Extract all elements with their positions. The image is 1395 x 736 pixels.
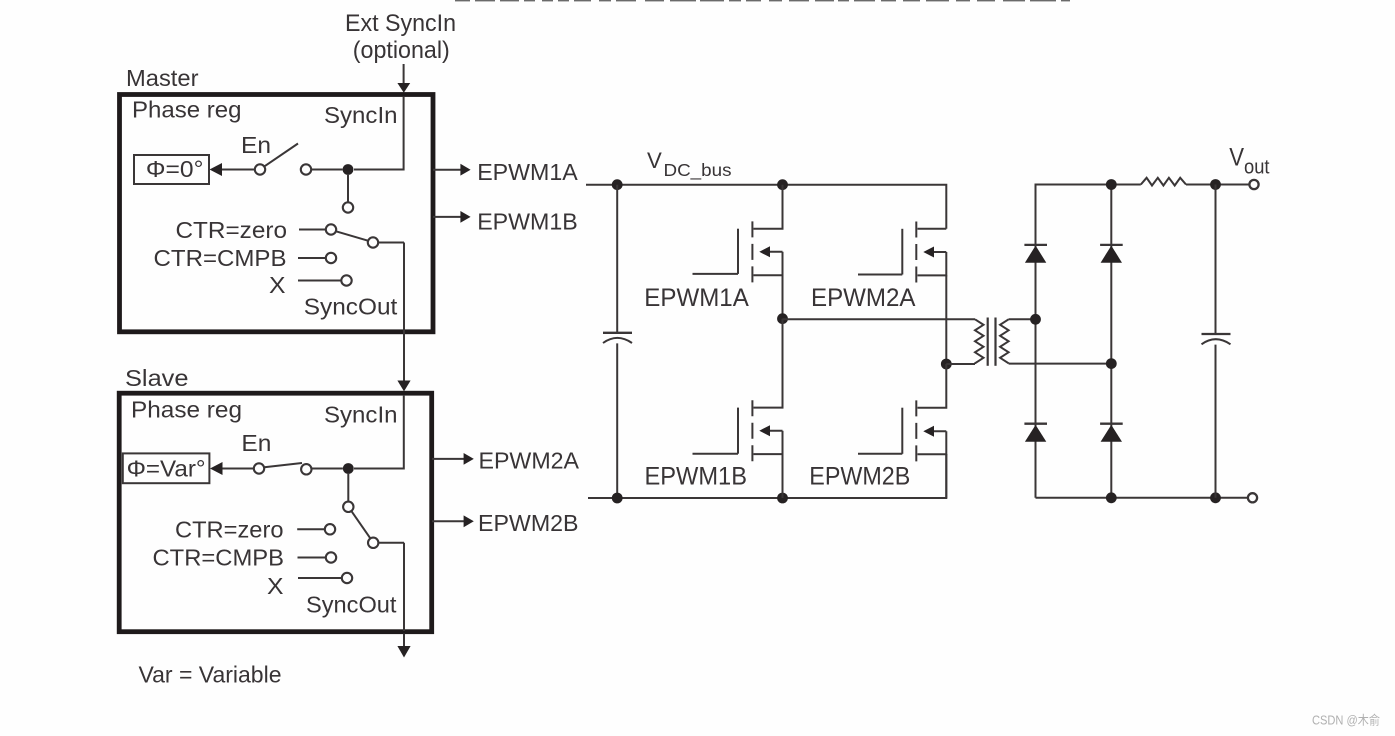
wire junction to switch circle — [312, 169, 343, 171]
svg-text:CTR=CMPB: CTR=CMPB — [153, 545, 285, 571]
node junction slave SyncIn — [343, 463, 354, 474]
Q4 source wire — [945, 454, 947, 498]
wire EPWM1A out of master — [433, 169, 462, 171]
svg-text:Slave: Slave — [125, 365, 189, 391]
wire SyncIn inside master — [354, 97, 404, 170]
svg-text:V: V — [647, 148, 662, 173]
wire rectifier bottom rail — [1036, 497, 1249, 499]
transistor Q3 EPWM2A high-side right — [858, 222, 946, 365]
Q1 gate bar — [737, 229, 739, 274]
wire bottom rail primary — [588, 454, 946, 498]
Q2 body arrow — [754, 431, 783, 454]
wire primary bottom lead — [946, 363, 975, 365]
node top rail input cap — [612, 179, 623, 190]
node bottom rail input cap — [612, 493, 623, 504]
svg-text:(optional): (optional) — [353, 37, 450, 64]
Q3 gate lead — [858, 274, 902, 276]
circle CTR=CMPB slave — [326, 552, 336, 562]
Q2 gate lead — [693, 453, 739, 455]
node half-bridge right mid — [941, 359, 952, 370]
circle CTR=zero slave — [325, 524, 335, 534]
svg-text:CTR=CMPB: CTR=CMPB — [154, 245, 287, 271]
wire EPWM1B out of master — [433, 216, 462, 218]
wire ext syncin vertical — [403, 64, 405, 85]
phase value box master — [134, 155, 209, 184]
arrow into master SyncIn — [397, 83, 410, 93]
svg-text:SyncOut: SyncOut — [306, 592, 397, 618]
switch pole circle slave En right — [301, 464, 311, 474]
Q4 channel dashed — [915, 400, 917, 461]
circle CTR=CMPB master — [326, 253, 336, 263]
Q2 source wire — [782, 454, 784, 498]
label V_DC_bus — [647, 148, 732, 181]
diode D1 upper left — [1024, 245, 1047, 263]
svg-text:EPWM1A: EPWM1A — [644, 285, 749, 312]
circle X master — [341, 275, 351, 285]
circle SyncOut pole slave — [368, 538, 378, 548]
svg-text:CTR=zero: CTR=zero — [176, 217, 288, 243]
node top rail left leg — [777, 179, 788, 190]
Q3 gate bar — [901, 229, 903, 275]
Q4 body arrow — [918, 431, 947, 454]
slave block border — [119, 393, 432, 632]
circle SyncOut pole master — [368, 237, 378, 247]
wire secondary bottom lead — [1009, 363, 1112, 365]
Q3 drain wire — [918, 228, 947, 230]
svg-text:CTR=zero: CTR=zero — [175, 517, 284, 543]
wire SyncOut vertical to slave — [403, 243, 405, 383]
arrow into slave SyncIn — [397, 381, 410, 392]
switch arm master En — [265, 144, 299, 167]
svg-text:X: X — [267, 573, 284, 599]
wire junction to switch circle slave — [312, 468, 343, 470]
node junction master SyncIn — [343, 164, 354, 175]
svg-text:CSDN @木俞: CSDN @木俞 — [1312, 713, 1380, 728]
transformer T1 secondary winding — [1000, 319, 1009, 363]
node bottom rail left leg — [777, 493, 788, 504]
transformer T1 primary winding — [975, 319, 984, 364]
transformer T1 core — [987, 318, 989, 366]
wire circle to phase arrow slave — [222, 468, 254, 470]
wire SyncOut vertical below slave — [403, 543, 405, 648]
arrow SyncOut bottom — [397, 646, 410, 658]
svg-text:EPWM2A: EPWM2A — [479, 448, 580, 474]
capacitor output plate flat — [1202, 333, 1231, 335]
label Ext SyncIn (optional) — [345, 10, 456, 64]
Q4 gate bar — [901, 408, 903, 454]
wire primary top lead — [783, 318, 976, 320]
svg-text:SyncIn: SyncIn — [324, 102, 398, 128]
Q1 body arrow — [754, 252, 783, 275]
wire CTR=zero stub — [299, 229, 326, 231]
svg-text:Ext SyncIn: Ext SyncIn — [345, 10, 456, 37]
arrow into phase reg box — [210, 163, 223, 176]
terminal Vout top — [1249, 180, 1258, 189]
Q1 drain wire — [754, 185, 783, 229]
arrow into phase reg box slave — [210, 462, 223, 475]
svg-text:EPWM1B: EPWM1B — [645, 464, 748, 491]
Q3 body arrow — [918, 252, 947, 275]
capacitor output top lead — [1215, 185, 1217, 335]
circle CTR=zero master — [326, 224, 336, 234]
wire EPWM2A out of slave — [432, 458, 465, 460]
switch arm slave SyncOut — [351, 511, 370, 538]
svg-text:EPWM2B: EPWM2B — [478, 510, 579, 536]
wire SyncOut to right slave — [379, 542, 404, 544]
svg-text:Φ=0°: Φ=0° — [146, 156, 204, 182]
arrow EPWM2B — [464, 515, 474, 527]
arrow EPWM2A — [464, 453, 474, 465]
svg-text:EPWM2B: EPWM2B — [809, 464, 910, 491]
wire X stub — [298, 280, 341, 282]
master block border — [120, 95, 434, 332]
svg-text:EPWM1A: EPWM1A — [477, 159, 578, 185]
wire CTR=CMPB stub slave — [298, 557, 326, 559]
svg-text:Master: Master — [126, 65, 199, 91]
node right leg secondary bottom — [1106, 358, 1117, 369]
Q3 source wire — [945, 275, 947, 364]
svg-text:V: V — [1229, 144, 1244, 172]
wire SyncIn inside slave — [354, 396, 404, 469]
svg-text:EPWM2A: EPWM2A — [811, 285, 916, 312]
svg-text:Φ=Var°: Φ=Var° — [127, 456, 206, 482]
wire circle to phase arrow — [221, 169, 255, 171]
wire secondary top lead — [1009, 318, 1036, 320]
Q1 gate lead — [693, 273, 739, 275]
svg-text:Var = Variable: Var = Variable — [139, 662, 282, 688]
label V_out — [1229, 144, 1270, 179]
wire junction down stub slave — [347, 474, 349, 502]
Q1 channel dashed — [751, 221, 753, 282]
wire EPWM2B out of slave — [432, 520, 465, 522]
capacitor input plate flat — [603, 332, 632, 334]
Q2 drain wire — [754, 319, 783, 408]
svg-text:En: En — [241, 132, 271, 158]
switch pole circle slave En left — [254, 463, 264, 473]
terminal Vout bottom — [1248, 493, 1257, 502]
svg-text:X: X — [269, 272, 286, 298]
capacitor input top lead — [616, 185, 618, 333]
Q4 drain wire — [918, 364, 947, 408]
node output rail bottom — [1210, 492, 1221, 503]
capacitor output bottom lead — [1215, 345, 1217, 498]
transistor Q1 EPWM1A high-side left — [693, 185, 783, 319]
circle X slave — [342, 573, 352, 583]
wire CTR=zero stub slave — [297, 528, 325, 530]
Q2 gate bar — [737, 408, 739, 454]
arrow EPWM1A — [460, 164, 470, 176]
node bottom rail right leg — [1106, 492, 1117, 503]
svg-text:SyncIn: SyncIn — [324, 402, 398, 428]
circle below junction master — [343, 202, 353, 212]
capacitor output plate curved — [1202, 339, 1231, 344]
wire rectifier left leg — [1036, 185, 1249, 498]
switch pole circle master En right — [301, 164, 311, 174]
svg-text:Phase reg: Phase reg — [132, 97, 242, 123]
switch pole circle master En left — [255, 164, 265, 174]
wire DC bus top rail — [586, 185, 946, 229]
capacitor input plate curved — [603, 338, 632, 343]
wire SyncOut to right — [378, 242, 404, 244]
transistor Q4 EPWM2B low-side right — [858, 364, 946, 498]
svg-text:SyncOut: SyncOut — [304, 294, 398, 320]
svg-text:EPWM1B: EPWM1B — [477, 208, 578, 234]
svg-text:Phase reg: Phase reg — [131, 397, 242, 423]
phase value box slave — [123, 453, 210, 483]
circle below junction slave — [343, 502, 353, 512]
inductor L1 output — [1141, 178, 1186, 186]
node half-bridge left mid — [777, 313, 788, 324]
diode D3 lower left — [1024, 424, 1047, 442]
transistor Q2 EPWM1B low-side left — [693, 319, 783, 498]
node output rail after inductor — [1210, 179, 1221, 190]
svg-text:out: out — [1244, 157, 1270, 179]
svg-text:DC_bus: DC_bus — [664, 160, 732, 181]
node secondary top on left leg — [1030, 314, 1041, 325]
diode D4 lower right — [1100, 424, 1123, 442]
diode D2 upper right — [1100, 245, 1123, 263]
cropped title fragments at very top — [455, 0, 1070, 1]
Q1 source wire — [782, 275, 784, 319]
node right leg top — [1106, 179, 1117, 190]
capacitor input bottom lead — [616, 343, 618, 498]
wire X stub slave — [298, 577, 342, 579]
switch arm master SyncOut — [336, 231, 368, 241]
wire junction down stub — [347, 175, 349, 202]
wire CTR=CMPB stub — [298, 257, 326, 259]
Q4 gate lead — [858, 453, 902, 455]
switch arm slave En — [264, 463, 302, 467]
svg-text:En: En — [241, 430, 271, 456]
Q3 channel dashed — [915, 222, 917, 283]
wire rectifier right leg — [1110, 185, 1112, 498]
arrow EPWM1B — [460, 211, 470, 223]
Q2 channel dashed — [751, 400, 753, 461]
